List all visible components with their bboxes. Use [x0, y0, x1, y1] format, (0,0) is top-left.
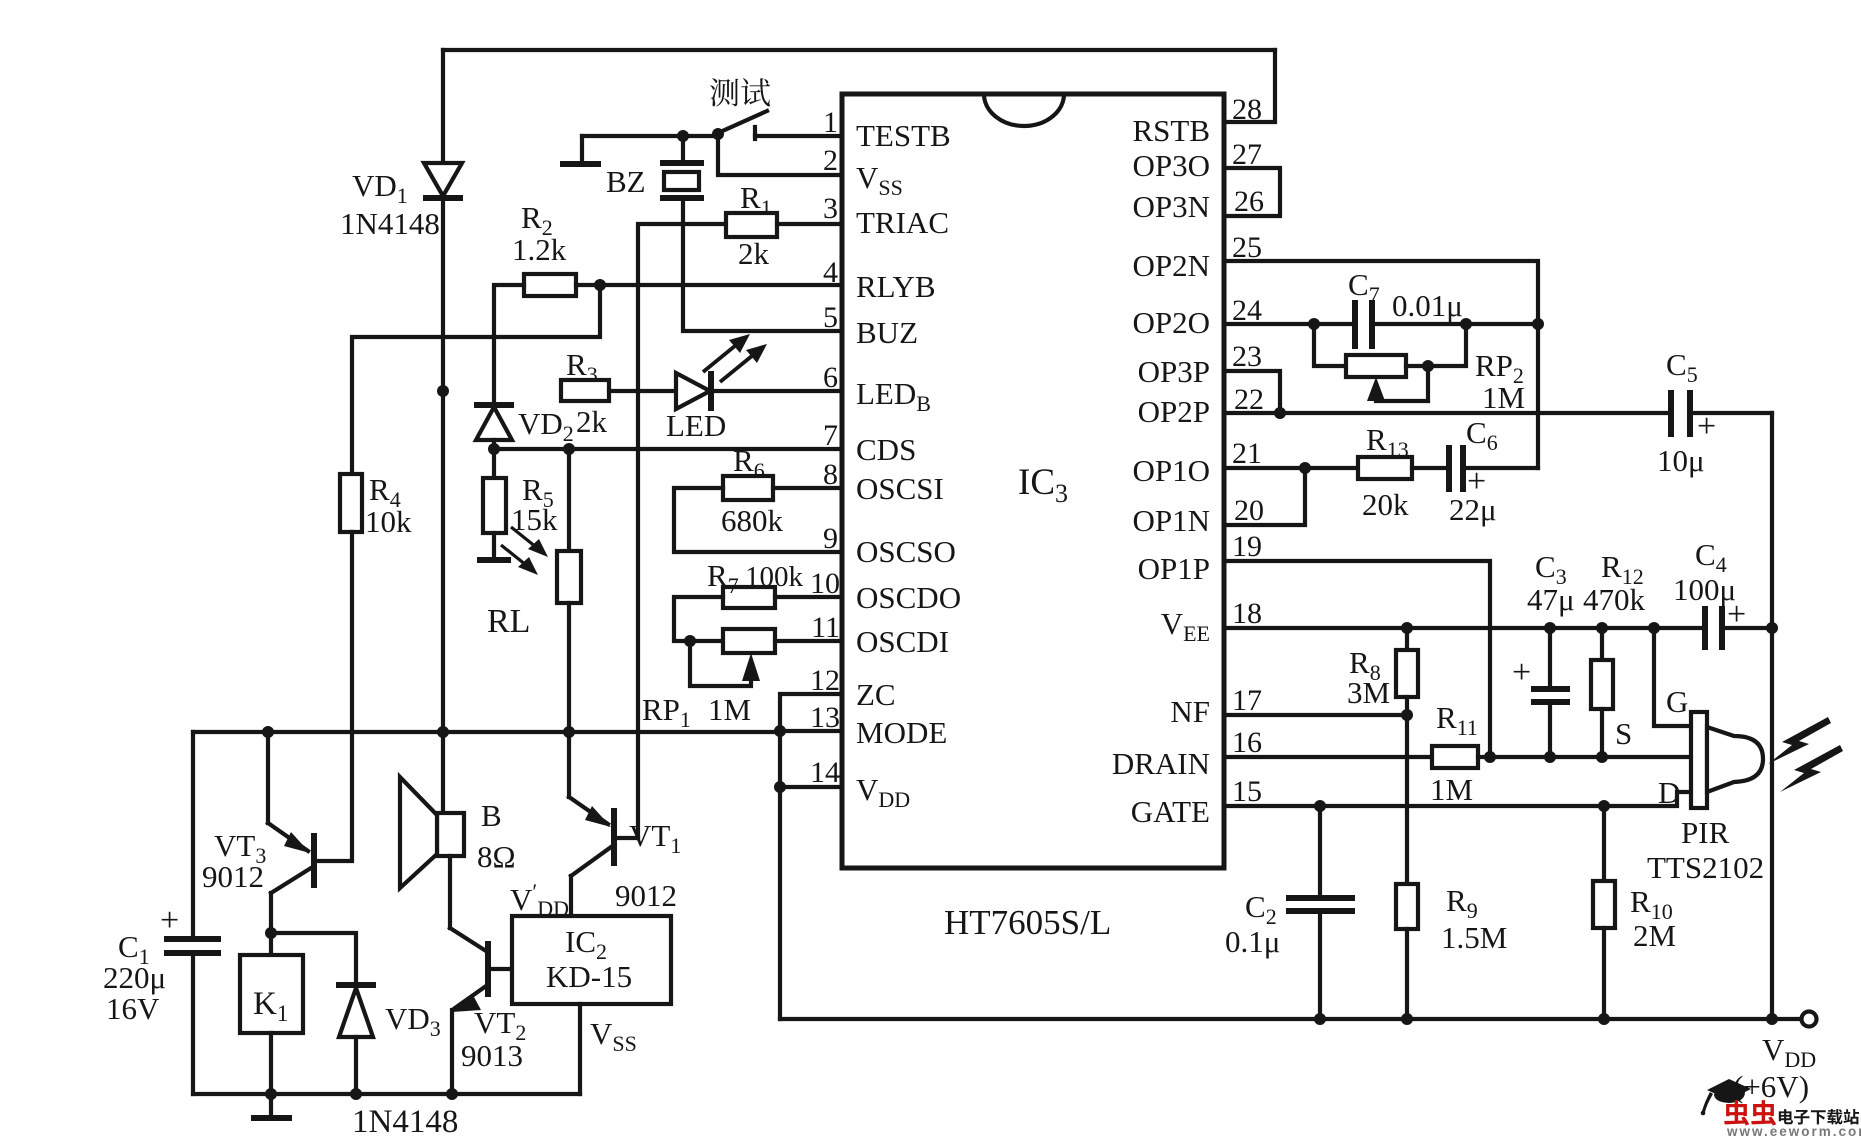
capacitor C6 [1449, 445, 1538, 492]
svg-text:9013: 9013 [461, 1038, 523, 1073]
svg-text:15: 15 [1232, 775, 1262, 808]
wire R3 to LED anode [609, 389, 678, 393]
wire R7 left loop to RP1 left [674, 597, 723, 641]
svg-text:2k: 2k [576, 404, 608, 439]
svg-text:OP1O: OP1O [1132, 453, 1210, 488]
node VEE / R12 [1596, 622, 1608, 634]
wire pin 21 to pin 20 loop [1224, 468, 1305, 525]
label 测试 [710, 78, 770, 106]
wire pin 16 DRAIN to R11 [1224, 755, 1432, 759]
wire pin 25 OP2N feedback riser [1224, 261, 1538, 468]
resistor R1 [726, 213, 777, 237]
svg-text:NF: NF [1170, 694, 1210, 729]
resistor R12 [1591, 628, 1613, 757]
wire RLYB branch down to R4 [352, 285, 600, 474]
svg-text:17: 17 [1232, 684, 1262, 717]
node VDD pin junction [774, 781, 786, 793]
node RP1 wiper junction [684, 635, 696, 647]
wire R2 right lead to pin 4 RLYB [576, 283, 842, 287]
wire R7 right to pin 10 OSCDO [775, 595, 842, 599]
wire IC2 VSS to bottom rail [578, 1004, 582, 1094]
node VD1-R3 junction [437, 385, 449, 397]
svg-text:OSCSI: OSCSI [856, 471, 944, 506]
svg-text:OSCDI: OSCDI [856, 624, 949, 659]
wire VD1 anode from top rail [441, 50, 445, 163]
wire pin 28 riser [1224, 50, 1275, 122]
wire CDS line to pin 7 [494, 447, 842, 451]
switch 测试 blade [718, 111, 767, 133]
svg-text:3M: 3M [1347, 675, 1390, 710]
capacitor C1 [164, 732, 221, 1094]
wire VD1 branch down to VDD rail [441, 391, 445, 732]
wire pin 13 MODE stub [780, 729, 842, 733]
wire switch pivot to pin 2 VSS [718, 136, 842, 175]
svg-text:1M: 1M [708, 692, 751, 727]
node RP2 wiper junction [1422, 360, 1434, 372]
svg-text:1M: 1M [1430, 772, 1473, 807]
zener diode VD2 [474, 405, 514, 440]
node OP2O junction [1308, 318, 1320, 330]
IC2 KD-15 box [512, 916, 671, 1004]
svg-text:1.5M: 1.5M [1441, 920, 1507, 955]
svg-text:RL: RL [487, 603, 530, 640]
wire TESTB line [582, 134, 718, 138]
node K1 bottom on rail [265, 1088, 277, 1100]
RP1 wiper arrow tied to pin 11 line [690, 641, 760, 686]
wire R6 left loop to pin 9 OSCSO [674, 488, 842, 552]
resistor R6 [723, 476, 773, 500]
node right column VEE tap [1766, 622, 1778, 634]
watermark 电子下载站 [1779, 1109, 1859, 1125]
svg-text:OSCSO: OSCSO [856, 534, 956, 569]
wire pin 17 NF line [1224, 713, 1407, 717]
svg-text:100k: 100k [745, 561, 804, 593]
node S line / C3 [1544, 751, 1556, 763]
resistor R4 [340, 474, 362, 532]
resistor R3 [561, 380, 609, 401]
svg-text:220μ: 220μ [103, 960, 166, 995]
svg-text:2: 2 [823, 144, 838, 177]
LED emission arrows [703, 334, 767, 382]
node VEE / G branch [1648, 622, 1660, 634]
light arrows into RL [501, 527, 548, 575]
wire pin 18 VEE line [1224, 626, 1704, 630]
PIR sensor TTS2102 body [1691, 712, 1763, 808]
node feedback riser / C7 net [1532, 318, 1544, 330]
node VEE / C3 [1544, 622, 1556, 634]
transistor VT1 [569, 732, 638, 916]
svg-text:+: + [1512, 654, 1531, 691]
svg-text:20k: 20k [1362, 487, 1409, 522]
wire G branch to PIR [1654, 628, 1691, 726]
svg-text:47μ: 47μ [1527, 582, 1575, 617]
svg-text:DRAIN: DRAIN [1112, 746, 1210, 781]
wire top rail from VD1 to pin 28 [443, 48, 1275, 52]
svg-text:680k: 680k [721, 503, 784, 538]
capacitor C2 [1286, 806, 1355, 1019]
svg-text:LED: LED [666, 408, 726, 443]
svg-text:16V: 16V [106, 991, 160, 1026]
node OP2P junction [1274, 407, 1286, 419]
capacitor C4 [1705, 606, 1772, 650]
wire BZ bottom to BUZ pin 5 [683, 200, 842, 331]
resistor R7 [723, 587, 775, 608]
switch fixed contact [753, 127, 757, 139]
RP2 wiper arrow tied to right lead [1367, 366, 1428, 401]
svg-text:26: 26 [1234, 185, 1264, 218]
node VT2 emitter on rail [446, 1088, 458, 1100]
buzzer BZ [660, 136, 704, 198]
wire R11 right to PIR S pin [1478, 755, 1691, 759]
node VD2-R5-CDS junction [488, 443, 500, 455]
wire NF down to R9 [1405, 715, 1409, 884]
wire K1 top to VD3 [271, 933, 356, 983]
svg-text:23: 23 [1232, 340, 1262, 373]
wire right column down to bottom rail [1770, 628, 1774, 1019]
svg-text:1N4148: 1N4148 [352, 1104, 458, 1137]
resistor R9 [1396, 884, 1418, 1019]
node OP1O junction [1299, 462, 1311, 474]
watermark graduation cap logo [1701, 1079, 1751, 1115]
wire R6 right to pin 8 OSCSI [773, 486, 842, 490]
svg-text:RLYB: RLYB [856, 269, 936, 304]
node VDD rail / VD1-speaker riser [437, 726, 449, 738]
diode VD1 [423, 163, 463, 198]
wire R2 left lead down to VD2 [494, 285, 524, 403]
svg-text:PIR: PIR [1681, 815, 1730, 850]
node rail / right column [1766, 1013, 1778, 1025]
node C7 right / RP2 riser [1460, 318, 1472, 330]
svg-text:ZC: ZC [856, 677, 896, 712]
svg-text:OP1N: OP1N [1132, 503, 1210, 538]
node S line / pin19 riser [1484, 751, 1496, 763]
resistor R5 [477, 449, 511, 560]
svg-text:10μ: 10μ [1657, 443, 1705, 478]
resistor R10 [1593, 806, 1615, 1019]
svg-text:1M: 1M [1482, 380, 1525, 415]
node R2 right junction [594, 279, 606, 291]
svg-text:TTS2102: TTS2102 [1647, 850, 1764, 885]
node GATE / R10 [1598, 800, 1610, 812]
svg-text:1.2k: 1.2k [512, 232, 567, 267]
svg-text:OP1P: OP1P [1138, 551, 1210, 586]
resistor R11 [1432, 746, 1478, 768]
op-amp IC3 HT7605S/L body [842, 94, 1224, 868]
wire RP1 right to pin 11 OSCDI [775, 639, 842, 643]
svg-text:RSTB: RSTB [1132, 113, 1210, 148]
svg-text:D: D [1658, 775, 1680, 810]
svg-text:0.01μ: 0.01μ [1392, 288, 1463, 323]
wire LED cathode to pin 6 LEDB [711, 389, 842, 393]
infrared arrows into PIR [1768, 717, 1843, 792]
wire pin 24 OP2O to C7 [1224, 322, 1354, 326]
wire bottom VDD rail [780, 1017, 1801, 1021]
wire pin 15 GATE line to PIR D pin [1224, 792, 1691, 806]
wire pin 19 OP1P to S node riser [1224, 561, 1490, 757]
node VDD rail / RL-VT1 riser [563, 726, 575, 738]
photoresistor RL [557, 449, 581, 732]
svg-text:20: 20 [1234, 494, 1264, 527]
svg-text:2k: 2k [738, 236, 770, 271]
svg-text:BZ: BZ [606, 164, 646, 199]
svg-text:OP3O: OP3O [1132, 148, 1210, 183]
svg-text:+: + [160, 902, 179, 939]
node RL top junction [563, 443, 575, 455]
wire pin 12 ZC loop to MODE line [780, 694, 842, 731]
node rail / R9 [1401, 1013, 1413, 1025]
svg-text:MODE: MODE [856, 715, 947, 750]
wire VD2 anode to CDS node [492, 440, 496, 449]
capacitor C5 [1671, 390, 1772, 437]
resistor R8 [1396, 628, 1418, 715]
svg-text:18: 18 [1232, 597, 1262, 630]
wire right column from C5 to VEE tap [1770, 413, 1774, 628]
node VD3 bottom on rail [350, 1088, 362, 1100]
svg-text:OSCDO: OSCDO [856, 580, 961, 615]
wire VDD riser down to bottom rail [778, 787, 782, 1019]
svg-text:2M: 2M [1633, 918, 1676, 953]
svg-text:OP2O: OP2O [1132, 305, 1210, 340]
svg-text:OP2N: OP2N [1132, 248, 1210, 283]
terminal VDD supply [1802, 1012, 1817, 1027]
svg-text:22μ: 22μ [1449, 492, 1497, 527]
svg-text:HT7605S/L: HT7605S/L [944, 903, 1111, 942]
node rail / C2 [1314, 1013, 1326, 1025]
node MODE junction [774, 725, 786, 737]
node BZ top junction [677, 130, 689, 142]
svg-text:OP3N: OP3N [1132, 189, 1210, 224]
node VT3 collector junction [265, 927, 277, 939]
wire R1 left lead to VT1 base riser [638, 224, 726, 838]
svg-text:21: 21 [1232, 437, 1262, 470]
svg-text:KD-15: KD-15 [546, 959, 632, 994]
svg-text:0.1μ: 0.1μ [1225, 924, 1280, 959]
wire pin 21 OP1O line [1224, 466, 1358, 470]
svg-text:3: 3 [823, 192, 838, 225]
potentiometer RP2 [1314, 324, 1466, 377]
svg-text:+: + [1697, 408, 1716, 445]
svg-text:OP2P: OP2P [1138, 394, 1210, 429]
capacitor C7 [1355, 300, 1538, 349]
wire MODE riser to pin 14 VDD [778, 731, 782, 787]
potentiometer RP1 [723, 629, 775, 653]
svg-text:GATE: GATE [1131, 794, 1210, 829]
wire R1 right lead to pin 3 TRIAC [777, 222, 842, 226]
node VEE / R8 [1401, 622, 1413, 634]
resistor R13 [1358, 457, 1412, 479]
resistor R2 [524, 274, 576, 296]
svg-text:OP3P: OP3P [1138, 354, 1210, 389]
wire switch contact to pin 1 TESTB [755, 134, 842, 138]
svg-text:16: 16 [1232, 726, 1262, 759]
svg-text:BUZ: BUZ [856, 315, 918, 350]
svg-text:9012: 9012 [615, 878, 677, 913]
wire MODE/VDD rail across left side [193, 730, 780, 734]
svg-text:10k: 10k [365, 504, 412, 539]
relay K1 [240, 933, 303, 1094]
LED diode [676, 371, 711, 411]
node VDD rail / VT3 emitter [262, 726, 274, 738]
wire R4 bottom to VT3 base [316, 532, 352, 861]
wire pin 14 VDD stub [780, 785, 842, 789]
ground symbol below K1 [251, 1094, 292, 1118]
svg-text:19: 19 [1232, 530, 1262, 563]
wire VSS bottom-left rail [193, 1092, 580, 1096]
svg-text:9012: 9012 [202, 859, 264, 894]
svg-text:+: + [1727, 596, 1746, 633]
wire pin 23 to pin 22 loop [1224, 371, 1280, 413]
svg-text:B: B [481, 798, 502, 833]
diode VD3 [336, 985, 376, 1094]
capacitor C3 [1531, 628, 1570, 757]
svg-text:TRIAC: TRIAC [856, 205, 949, 240]
node rail / R10 [1598, 1013, 1610, 1025]
wire pin 27 to pin 26 loop [1224, 168, 1280, 216]
svg-text:470k: 470k [1583, 582, 1646, 617]
ground stub on TESTB line [560, 136, 601, 164]
svg-text:www.eeworm.com: www.eeworm.com [1726, 1124, 1861, 1137]
node test switch pivot [712, 128, 724, 140]
wire VD1 cathode down to LED line [441, 198, 445, 391]
svg-text:14: 14 [810, 756, 840, 789]
wire OP2P line to C5 [1280, 411, 1670, 415]
node GATE / C2 [1314, 800, 1326, 812]
transistor VT2 [450, 928, 512, 1094]
svg-text:1N4148: 1N4148 [340, 206, 440, 241]
node S line / R12 [1596, 751, 1608, 763]
speaker B [400, 732, 464, 928]
svg-text:S: S [1615, 716, 1632, 751]
wire R13 to C6 [1412, 466, 1448, 470]
svg-text:CDS: CDS [856, 432, 916, 467]
svg-text:TESTB: TESTB [856, 118, 951, 153]
svg-text:G: G [1666, 684, 1688, 719]
transistor VT3 [268, 732, 314, 933]
watermark red 虫虫 [1724, 1100, 1776, 1126]
svg-text:8Ω: 8Ω [477, 839, 516, 874]
node NF junction [1401, 709, 1413, 721]
